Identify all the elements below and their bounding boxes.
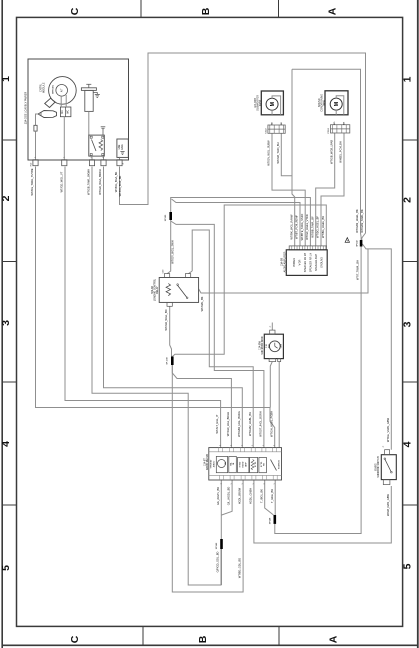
svg-text:WT/GD_WGA_BKWH: WT/GD_WGA_BKWH: [98, 169, 102, 195]
svg-text:SUBWOO: SUBWOO: [279, 460, 281, 470]
svg-text:WT/DG_TAWL_TUYBE: WT/DG_TAWL_TUYBE: [30, 168, 34, 195]
svg-text:1: 1: [274, 483, 276, 484]
svg-text:MD: MD: [269, 344, 271, 348]
svg-text:WT/OG_BOX_BK: WT/OG_BOX_BK: [118, 175, 122, 196]
svg-text:WT/GF_HGEL_VTRD: WT/GF_HGEL_VTRD: [305, 214, 309, 239]
svg-text:1: 1: [220, 445, 222, 446]
svg-text:SUNROOF SWITCH: SUNROOF SWITCH: [378, 456, 380, 478]
svg-text:WT/BK_WGL_RAHW: WT/BK_WGL_RAHW: [289, 214, 293, 239]
svg-text:1: 1: [274, 445, 276, 446]
svg-text:1: 1: [230, 445, 232, 446]
svg-text:WT/GB_TAWL_BKWH: WT/GB_TAWL_BKWH: [87, 169, 91, 195]
svg-text:1: 1: [0, 76, 12, 82]
svg-text:SP160: SP160: [165, 214, 167, 221]
svg-text:V-DR: V-DR: [299, 259, 302, 265]
svg-text:WT/BT_PCM_REMF: WT/BT_PCM_REMF: [295, 215, 299, 239]
svg-text:NC: NC: [62, 110, 64, 114]
svg-text:SPEAKER RR RH: SPEAKER RR RH: [304, 252, 307, 272]
svg-text:WT/GN_WGL_SUBW: WT/GN_WGL_SUBW: [267, 140, 271, 166]
svg-text:WT/DG_HGEL_BF: WT/DG_HGEL_BF: [316, 216, 320, 238]
svg-text:1: 1: [220, 483, 222, 484]
svg-text:LNE: LNE: [119, 144, 121, 149]
svg-text:SP146: SP146: [216, 542, 218, 549]
svg-text:WT/DG_BGA_BK: WT/DG_BGA_BK: [114, 171, 118, 192]
svg-text:WHEEL_PCM_BH: WHEEL_PCM_BH: [339, 141, 343, 163]
svg-text:A: A: [328, 635, 340, 643]
svg-text:4: 4: [402, 441, 414, 447]
svg-text:M: M: [334, 102, 340, 106]
svg-text:5: 5: [0, 565, 12, 571]
svg-text:WT/GBL_BK: WT/GBL_BK: [200, 296, 204, 311]
svg-text:GROUND: GROUND: [321, 257, 324, 268]
svg-text:13A-DGE LCASBLY PWRER: 13A-DGE LCASBLY PWRER: [24, 92, 27, 125]
svg-text:KYTD: KYTD: [255, 461, 257, 467]
svg-text:WT/BD_GDL_BD: WT/BD_GDL_BD: [238, 558, 242, 578]
svg-text:WC: WC: [67, 110, 69, 114]
svg-text:1: 1: [252, 445, 254, 446]
svg-text:SP442: SP442: [357, 239, 359, 246]
svg-text:C: C: [69, 635, 81, 643]
svg-text:1: 1: [241, 445, 243, 446]
svg-text:MODULE: MODULE: [43, 82, 46, 93]
svg-text:SP148: SP148: [270, 517, 272, 524]
svg-text:3: 3: [402, 321, 414, 327]
svg-text:ENG: ENG: [122, 144, 124, 149]
svg-text:A/T: A/T: [61, 88, 64, 92]
svg-text:13A-BW: 13A-BW: [259, 340, 262, 349]
svg-text:RADIO RECVR: RADIO RECVR: [206, 454, 209, 470]
svg-text:BD: BD: [272, 122, 274, 125]
svg-text:1: 1: [231, 483, 233, 484]
svg-text:HGDL_BBUW: HGDL_BBUW: [238, 487, 242, 504]
svg-text:BD: BD: [334, 121, 336, 124]
svg-text:A: A: [327, 7, 339, 15]
svg-text:WT/GB2_HGL_BURG: WT/GB2_HGL_BURG: [237, 411, 241, 437]
svg-text:B: B: [197, 635, 209, 643]
svg-text:WT/GD_WGL_BD: WT/GD_WGL_BD: [164, 309, 168, 330]
svg-text:MLRD: MLRD: [243, 461, 245, 467]
svg-text:WT/BG_HGEL_BK: WT/BG_HGEL_BK: [321, 216, 325, 238]
svg-text:WHE: WHE: [323, 100, 326, 106]
svg-text:G/L_/HGDL_BD: G/L_/HGDL_BD: [227, 487, 231, 506]
svg-text:ASSY: ASSY: [259, 99, 262, 106]
svg-text:WT/GB_THIN_BH: WT/GB_THIN_BH: [276, 142, 280, 163]
svg-text:WT/GB_WGB_LPAB: WT/GB_WGB_LPAB: [329, 140, 333, 164]
svg-text:4: 4: [0, 441, 12, 447]
svg-text:AUDIO: AUDIO: [212, 460, 215, 467]
svg-text:WT/GY_WGL_SWH: WT/GY_WGL_SWH: [170, 240, 174, 263]
svg-text:C: C: [69, 7, 81, 15]
svg-text:AUDIO AMPLIFIER: AUDIO AMPLIFIER: [283, 251, 286, 272]
svg-text:G/F/GD_GDL_BD: G/F/GD_GDL_BD: [216, 552, 220, 573]
svg-text:WT/G/T_/HGL_BORH: WT/G/T_/HGL_BORH: [259, 411, 263, 437]
svg-text:T_/HGL_BK: T_/HGL_BK: [270, 489, 274, 503]
svg-text:1: 1: [264, 483, 266, 484]
svg-text:G/L_/HGTL_BD: G/L_/HGTL_BD: [216, 487, 220, 505]
svg-text:W/GB_/GB1_GBW: W/GB_/GB1_GBW: [386, 494, 390, 516]
svg-text:AMP: AMP: [245, 462, 248, 467]
svg-text:N/PRGBL: N/PRGBL: [53, 84, 55, 94]
svg-text:SPKR/AT: SPKR/AT: [210, 459, 213, 468]
svg-text:WT/GL_VGBL_GBW: WT/GL_VGBL_GBW: [386, 417, 390, 442]
svg-text:KYTD: KYTD: [261, 461, 263, 467]
svg-text:GBB: GBB: [281, 343, 283, 348]
svg-text:POWER: POWER: [293, 258, 296, 267]
svg-text:C324: C324: [328, 128, 330, 134]
svg-text:SPEAKER RR LH: SPEAKER RR LH: [310, 253, 313, 272]
svg-text:1: 1: [263, 445, 265, 446]
svg-text:RELAY: RELAY: [156, 286, 159, 294]
svg-text:1: 1: [242, 483, 244, 484]
svg-text:WT/GM2_HGBL_BU: WT/GM2_HGBL_BU: [248, 412, 252, 436]
svg-text:1: 1: [402, 76, 414, 82]
svg-text:C322: C322: [265, 128, 267, 134]
svg-text:KYBD: KYBD: [240, 461, 242, 467]
svg-text:WT/GD_WGL_VT: WT/GD_WGL_VT: [60, 171, 64, 192]
svg-text:5: 5: [402, 563, 414, 569]
svg-text:WT/BB_TAWL_BF: WT/BB_TAWL_BF: [310, 216, 314, 238]
svg-text:WT/GH_HGBL_PGBH: WT/GH_HGBL_PGBH: [269, 411, 273, 437]
svg-text:3: 3: [0, 320, 12, 326]
svg-text:2: 2: [0, 195, 12, 201]
svg-text:SPEAKER AMP: SPEAKER AMP: [315, 254, 318, 271]
svg-text:WT/GB2_HGEL_BK: WT/GB2_HGEL_BK: [355, 209, 359, 233]
svg-text:SP-168: SP-168: [167, 357, 169, 365]
svg-text:B: B: [200, 7, 212, 15]
svg-text:HGDL_GNBH: HGDL_GNBH: [249, 488, 253, 504]
svg-text:WT/GT_HGL_/T: WT/GT_HGL_/T: [215, 414, 219, 433]
svg-text:SUN ROOF MOD: SUN ROOF MOD: [262, 336, 264, 354]
svg-text:WT/T_TKWL_BH: WT/T_TKWL_BH: [356, 260, 360, 280]
svg-text:2: 2: [402, 197, 414, 203]
svg-text:1: 1: [253, 483, 255, 484]
svg-text:WT/GD_HGL_BDGH: WT/GD_HGL_BDGH: [226, 412, 230, 436]
svg-text:T_/BGL_BK: T_/BGL_BK: [259, 489, 263, 503]
svg-text:FM: FM: [264, 463, 266, 466]
svg-text:WT/BTE_TARA_SNFO: WT/BTE_TARA_SNFO: [300, 214, 304, 241]
svg-text:WT/GB2_TAWL_BK: WT/GB2_TAWL_BK: [360, 209, 364, 232]
svg-text:M: M: [270, 102, 276, 106]
